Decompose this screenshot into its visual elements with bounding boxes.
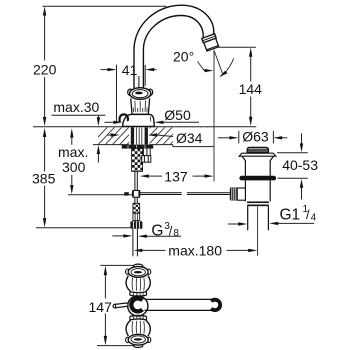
deck bottom line — [93, 144, 173, 146]
pop-up waste lift knob — [247, 147, 268, 153]
deck hatching — [90, 127, 223, 146]
svg-text:20°: 20° — [173, 48, 194, 64]
svg-text:max.30: max.30 — [53, 99, 99, 115]
dimension max.30 up arrow below deck — [97, 145, 100, 154]
top view: body circle — [128, 296, 148, 316]
svg-text:40-53: 40-53 — [282, 157, 318, 173]
svg-text:4: 4 — [311, 212, 317, 223]
aerator — [202, 34, 220, 51]
pop-up rod tee fitting — [132, 191, 134, 196]
dimension max.300 vertical line — [71, 138, 73, 185]
pop-up waste step — [247, 201, 269, 203]
dia50 dimension left arrow — [105, 121, 114, 123]
spout valve stem line — [138, 76, 140, 88]
svg-text:300: 300 — [62, 159, 86, 175]
spout arc outer — [134, 5, 214, 88]
handle base escutcheon — [123, 114, 155, 126]
svg-text:8: 8 — [173, 228, 179, 239]
20 degree angle arc — [220, 58, 233, 76]
supply pipe below nut — [133, 229, 138, 256]
dimension 220 vertical line — [44, 15, 46, 117]
white mask under faucet shank — [129, 127, 150, 145]
svg-text:G1: G1 — [280, 207, 301, 224]
top view: left lever — [113, 302, 129, 309]
handle facet lines — [133, 101, 147, 113]
dimension 41 — [101, 65, 157, 122]
svg-text:Ø63: Ø63 — [242, 128, 269, 144]
svg-text:Ø34: Ø34 — [176, 130, 203, 146]
svg-text:147: 147 — [89, 299, 113, 315]
dimension 40-53 — [301, 133, 303, 144]
G3/8 dimension arrows — [112, 235, 124, 237]
dimension 144 top reference line — [216, 46, 256, 48]
handle cap slot — [135, 92, 143, 95]
svg-text:41: 41 — [122, 62, 138, 78]
handle cross front: cap — [130, 88, 151, 100]
dimension 385 bottom arrow — [43, 218, 46, 227]
second supply stub — [142, 149, 151, 163]
handle body — [131, 98, 150, 114]
svg-text:/: / — [169, 223, 173, 238]
pop-up side port — [237, 188, 245, 200]
threaded shank below deck — [132, 149, 143, 172]
dia34 box underline — [173, 146, 215, 148]
dimension 220 bottom arrow — [43, 117, 46, 126]
svg-text:/: / — [306, 207, 310, 222]
top view: top knob — [126, 264, 151, 296]
dimension max.180 — [133, 249, 142, 252]
G1 1/4 leader — [278, 222, 315, 224]
20 degree leader with arrow — [198, 62, 206, 71]
tailpipe centerline — [257, 206, 259, 255]
top view: 147 dimension — [100, 264, 133, 266]
spout arc inner — [143, 16, 203, 89]
dimension 137 — [146, 175, 162, 177]
dia50 dimension right arrow and leader — [155, 121, 164, 124]
dimension max.300 top arrow — [70, 128, 73, 137]
pop-up waste neck — [242, 156, 274, 175]
top view: spout tube — [145, 299, 213, 310]
20 degree annotation vertical stream line — [213, 51, 215, 182]
top reference line — [43, 5, 167, 7]
top view: C ring — [131, 298, 142, 311]
max.300 bottom reference line — [68, 194, 133, 196]
svg-text:max.: max. — [58, 144, 88, 160]
pop-up waste o-ring — [239, 176, 276, 181]
dimension max.30 down arrow — [97, 117, 100, 126]
dimension max.300 bottom arrow — [70, 185, 73, 194]
supply pipe — [135, 171, 137, 190]
svg-text:137: 137 — [164, 168, 188, 184]
deck reference top line — [33, 126, 256, 128]
pop-up rod left end — [124, 192, 129, 195]
bottom reference line for 385 — [36, 227, 130, 229]
dimension 385 vertical line — [44, 137, 46, 219]
pop-up waste body — [245, 180, 270, 201]
top view: bottom knob — [126, 315, 151, 347]
tailpipe — [248, 206, 269, 230]
dia63 dimension — [218, 137, 230, 139]
svg-text:max.180: max.180 — [168, 242, 222, 258]
dia34 white box in deck — [173, 128, 215, 147]
svg-text:G: G — [151, 222, 163, 239]
pop-up knurled knob — [230, 188, 238, 201]
G1 1/4 left arrow — [228, 223, 239, 225]
svg-text:Ø50: Ø50 — [164, 107, 191, 123]
20 degree slanted stream line — [214, 50, 223, 75]
dimension 220 top arrow — [43, 6, 46, 15]
pop-up horizontal rod — [140, 193, 230, 195]
svg-text:385: 385 — [32, 170, 56, 186]
dimension max.30 leader line — [52, 114, 106, 116]
faucet shank through deck — [131, 127, 134, 144]
pipe below tee — [135, 197, 137, 203]
dia34 dimension arrows — [107, 134, 111, 136]
dimension 385 top arrow — [43, 128, 46, 137]
handle cross front: cap lobes — [128, 89, 133, 95]
pop-up rod hook — [120, 114, 128, 122]
top view: spout end ring — [211, 300, 220, 310]
svg-text:220: 220 — [33, 61, 57, 77]
ribbed hose fitting — [133, 213, 140, 220]
mounting washer under deck — [122, 145, 153, 149]
dimension 144 vertical line — [250, 56, 252, 117]
pop-up waste flange — [239, 153, 276, 156]
checkered hose fitting — [133, 203, 140, 213]
svg-text:144: 144 — [239, 81, 263, 97]
G3/8 nut — [130, 221, 142, 229]
